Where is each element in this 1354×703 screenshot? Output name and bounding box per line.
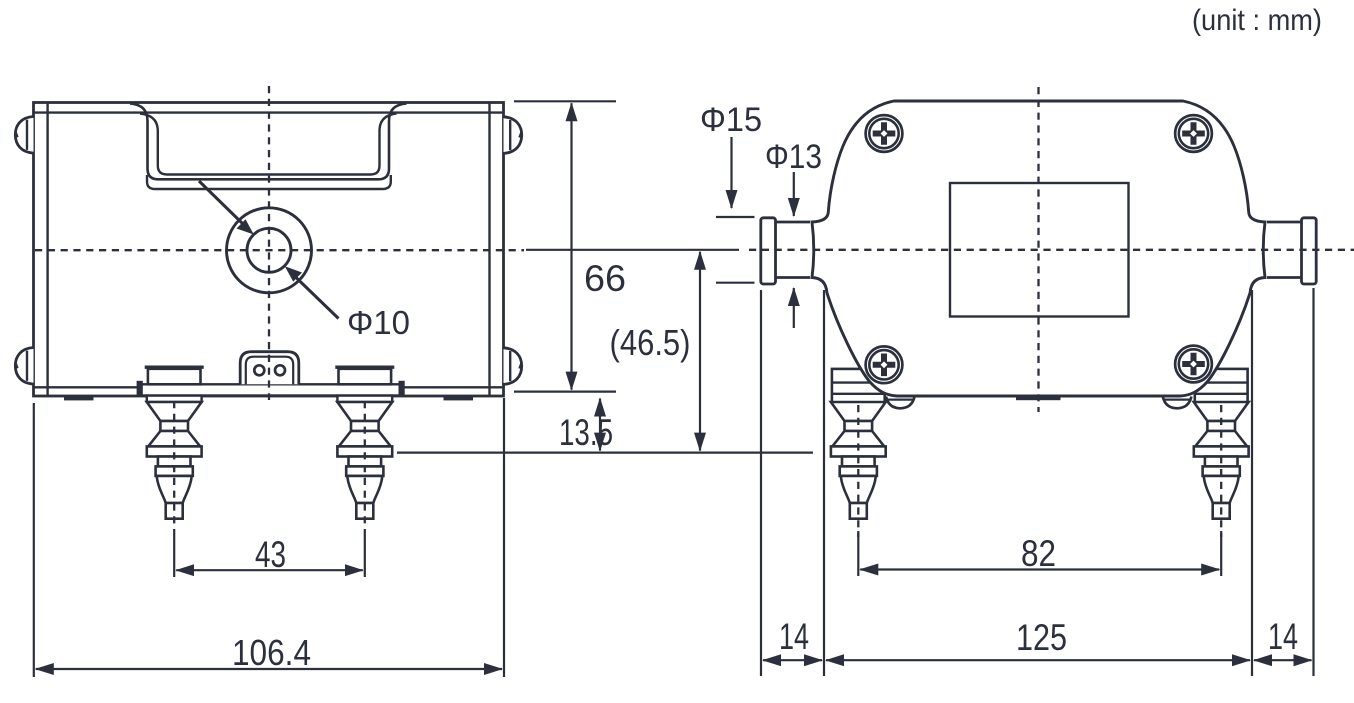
foot stem upper at x=1221.2 — [1205, 457, 1238, 467]
left view: right lower mounting ear — [504, 348, 522, 385]
left view: inner right wall line — [488, 103, 490, 397]
dim 43 arrow — [176, 569, 363, 571]
foot neck at x=858.3 — [845, 421, 873, 431]
long bottom extension line at foot plate level — [397, 452, 813, 454]
centerline right foot axis x=1221.2 — [1220, 405, 1222, 537]
dim 14-right arrow — [1254, 659, 1312, 661]
dim 82 arrow — [860, 568, 1219, 570]
dim 66 bottom extension line — [514, 391, 616, 393]
foot taper at x=174.2 — [157, 476, 192, 503]
dim 66 top extension line — [514, 100, 616, 102]
foot lower cone at x=1221.2 — [1195, 431, 1247, 446]
dim phi13 up arrow — [793, 288, 795, 328]
right view: bottom pad bump left — [886, 397, 915, 409]
phi15 extension line top — [716, 216, 755, 218]
foot stem upper at x=364.8 — [349, 457, 382, 467]
centerline right view vertical axis — [1037, 87, 1039, 412]
phi15 extension line bottom — [716, 282, 755, 284]
left view: bottom small tab right — [444, 396, 474, 401]
dim 82 right extension — [1220, 531, 1222, 576]
svg-text:Φ10: Φ10 — [347, 304, 410, 341]
left view foot band below rail at x=364.8 — [337, 396, 392, 402]
dim 125 right extension — [1251, 290, 1253, 676]
foot lower cone at x=364.8 — [339, 431, 391, 446]
foot taper at x=364.8 — [347, 476, 382, 503]
right view: screw bottom-left — [866, 346, 903, 383]
svg-text:13.5: 13.5 — [559, 412, 613, 453]
svg-text:82: 82 — [1021, 533, 1056, 574]
foot neck at x=174.2 — [160, 421, 188, 431]
right view: bottom center tab — [1016, 396, 1061, 400]
foot lower cone at x=174.2 — [148, 431, 200, 446]
foot stem collar at x=364.8 — [346, 466, 383, 476]
right view: nameplate rectangle — [950, 183, 1129, 317]
left view foot cap box at x=174.2 — [148, 369, 201, 385]
dim 43 right extension — [364, 529, 366, 577]
left view: electrical connector body — [240, 352, 299, 385]
left view: top recess inner contour — [140, 114, 397, 175]
foot plate at x=1221.2 — [1194, 446, 1249, 456]
dim 14-right extension — [1312, 288, 1314, 676]
foot stem upper at x=174.2 — [158, 457, 191, 467]
centerline right foot axis x=858.3 — [857, 405, 859, 537]
svg-text:106.4: 106.4 — [232, 632, 311, 673]
dim 14-left extension b — [823, 290, 825, 676]
dim 106.4 arrow — [36, 668, 502, 670]
dim 106.4 left extension — [33, 403, 35, 677]
foot plate at x=364.8 — [337, 446, 392, 456]
left view foot cap bar at x=174.2 — [145, 366, 204, 369]
centerline foot axis x=364.8 — [364, 401, 366, 527]
foot upper cone at x=364.8 — [337, 402, 392, 421]
svg-text:(unit : mm): (unit : mm) — [1192, 4, 1322, 37]
left view: inner left wall line — [46, 103, 48, 397]
foot tip at x=174.2 — [166, 503, 183, 519]
left view: recess bottom lip — [147, 175, 391, 189]
dim 106.4 right extension — [503, 398, 505, 677]
dim 13.5 arrow — [599, 399, 601, 451]
left view foot cap bar at x=364.8 — [335, 366, 394, 369]
left view: rail right end cap — [399, 381, 405, 396]
svg-text:43: 43 — [255, 534, 286, 575]
foot neck at x=364.8 — [351, 421, 379, 431]
right view foot bracket at x=1221.2 — [1195, 369, 1248, 402]
right view: left port tube diam 13 — [776, 221, 811, 224]
left view: connector pin hole 1 — [254, 365, 264, 375]
left view foot cap box at x=364.8 — [339, 369, 392, 385]
svg-text:66: 66 — [584, 258, 626, 299]
right view: screw bottom-right — [1175, 346, 1212, 383]
dim 43 left extension — [173, 529, 175, 577]
right view: bottom pad bump right — [1163, 397, 1192, 409]
svg-text:14: 14 — [1268, 616, 1298, 657]
leader line for diameter 10 label — [295, 277, 339, 319]
foot tip at x=364.8 — [356, 503, 373, 519]
left view: connector inner outline — [246, 357, 293, 385]
svg-text:(46.5): (46.5) — [610, 322, 691, 363]
right view: screw top-left — [866, 115, 903, 152]
foot taper at x=858.3 — [841, 476, 876, 503]
left view: port hole inner circle (diam 10) — [247, 228, 291, 272]
left view: bottom small tab left — [64, 396, 94, 401]
centerline right view horizontal axis — [749, 249, 1354, 251]
dim 46.5 arrow — [699, 252, 701, 451]
svg-text:125: 125 — [1016, 617, 1067, 658]
left view: rail left end cap — [137, 381, 143, 396]
foot lower cone at x=858.3 — [832, 431, 884, 446]
left view: top recess outer contour — [130, 104, 407, 180]
right view: left port flange diam 15 — [761, 218, 776, 284]
leader line to recess pointing at inner circle — [199, 181, 243, 224]
svg-text:Φ13: Φ13 — [765, 138, 822, 176]
left view: inner bottom wall line — [34, 386, 504, 388]
dim 82 left extension — [857, 531, 859, 576]
left view: right upper mounting ear — [504, 117, 522, 154]
left view foot band below rail at x=174.2 — [147, 396, 202, 402]
right view: screw top-right — [1175, 115, 1212, 152]
svg-text:Φ15: Φ15 — [700, 101, 762, 139]
right view foot bracket at x=858.3 — [832, 369, 885, 402]
foot tip at x=858.3 — [850, 503, 867, 519]
dim 14-left extension a — [760, 290, 762, 676]
foot plate at x=858.3 — [831, 446, 886, 456]
dim 125 arrow — [826, 659, 1250, 661]
left view: left upper mounting ear — [15, 117, 33, 154]
dim phi13 down arrow — [793, 172, 795, 216]
dim phi15 down arrow — [730, 137, 732, 208]
right view: right port flange — [1302, 218, 1317, 284]
dim 66 arrow — [570, 103, 572, 389]
left view: left lower mounting ear — [15, 348, 33, 385]
centerline solid extension between views — [526, 249, 739, 251]
centerline foot axis x=174.2 — [173, 401, 175, 527]
foot taper at x=1221.2 — [1204, 476, 1239, 503]
left view: inner top wall line — [34, 111, 504, 113]
foot plate at x=174.2 — [147, 446, 202, 456]
foot stem collar at x=1221.2 — [1203, 466, 1240, 476]
foot upper cone at x=858.3 — [831, 402, 886, 421]
left view: pump top-view outer box — [34, 103, 504, 397]
foot stem collar at x=858.3 — [840, 466, 877, 476]
foot upper cone at x=174.2 — [147, 402, 202, 421]
centerline left view vertical axis — [268, 86, 270, 400]
left view: connector pin hole 2 — [275, 365, 285, 375]
left view: mounting rail bar — [140, 384, 401, 395]
left view: port boss outer circle — [227, 208, 312, 293]
foot stem collar at x=174.2 — [156, 466, 193, 476]
foot stem upper at x=858.3 — [842, 457, 875, 467]
svg-text:14: 14 — [779, 616, 809, 657]
foot tip at x=1221.2 — [1213, 503, 1230, 519]
centerline left view horizontal axis — [35, 249, 524, 251]
foot neck at x=1221.2 — [1207, 421, 1235, 431]
right view: pump body outline — [812, 101, 1265, 396]
foot upper cone at x=1221.2 — [1194, 402, 1249, 421]
dim 14-left arrow — [763, 659, 822, 661]
right view: right port tube — [1267, 221, 1302, 224]
